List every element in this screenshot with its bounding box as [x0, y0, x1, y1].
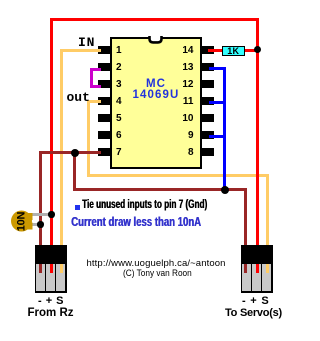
U1 pin 9: [202, 131, 214, 139]
connector J1 stub brown: [39, 264, 42, 273]
connector J2 cell -: [242, 264, 251, 291]
U1 pin number 4: [116, 96, 122, 107]
U1 pin number 5: [116, 113, 122, 124]
U1 label 14069U: [110, 89, 202, 101]
connector J1 cell S: [56, 264, 65, 291]
wire: orange OUT horizontal: [87, 174, 269, 177]
wire: brown ground left vertical (to From-Rz -): [39, 151, 42, 246]
wire: brown ground bottom horizontal: [73, 188, 248, 191]
capacitor C1 10N body: [11, 210, 33, 232]
U1 pin 14: [202, 46, 214, 54]
node: junction dot red rail / R1: [254, 46, 261, 53]
connector J2 cell +: [252, 264, 261, 291]
U1 notch: [144, 36, 168, 46]
U1 pin number 13: [182, 62, 194, 73]
wire: red supply top horizontal: [50, 18, 259, 21]
wire: red supply right vertical (to To-Servo +): [256, 18, 259, 246]
wire overlays: orange tip over pin 1: [98, 49, 101, 52]
credit url text: [87, 258, 226, 269]
wire overlay: blue tip over pin 9: [209, 135, 214, 138]
connector J1 From-Rz body: [35, 245, 67, 293]
U1 pin number 10: [182, 113, 194, 124]
credit author text: [123, 268, 192, 279]
U1 pin number 7: [116, 147, 122, 158]
wire overlay: orange tip over pin 4: [98, 100, 101, 103]
wire: purple feedback vertical: [90, 68, 94, 89]
wire: brown ground right vertical (to To-Servo -): [244, 188, 247, 247]
wire overlay: blue tip over pin 11: [209, 101, 214, 104]
wire: purple feedback pin3 stub: [90, 85, 101, 89]
wire overlay: brown tip over pin 7: [98, 151, 101, 154]
U1 pin 2: [98, 63, 110, 71]
note line 2 text: [71, 214, 201, 229]
connector J2 cell S: [262, 264, 271, 291]
note line 1: blue bullet: [75, 205, 80, 210]
node: junction dot ground pin7: [71, 149, 79, 157]
wire overlay: purple tip over pin 2: [98, 68, 101, 72]
wire: purple feedback pin2 stub: [90, 68, 101, 72]
connector J1 stub red: [50, 264, 53, 273]
node: junction dot cap to red rail: [48, 211, 54, 217]
U1 pin number 6: [116, 130, 122, 141]
wire: orange IN horizontal to pin 1: [60, 49, 101, 52]
capacitor C1 lead lower (to ground rail): [30, 223, 41, 226]
U1 pin number 8: [182, 147, 194, 158]
node: junction dot blue-to-ground: [221, 186, 229, 194]
connector J2 stub orange: [266, 264, 269, 273]
node: junction dot cap to ground rail: [37, 221, 43, 227]
U1 pin 7: [98, 148, 110, 156]
capacitor C1 value 10N (rotated): [16, 212, 27, 232]
wire: red supply left vertical (From-Rz +): [50, 18, 53, 246]
capacitor C1 lead upper (to red rail): [30, 213, 51, 216]
U1 pin number 3: [116, 79, 122, 90]
U1 label MC: [110, 78, 202, 90]
wire overlay: blue tip over pin 13: [209, 67, 214, 70]
connector J2 label To Servo(s): [223, 307, 285, 319]
op-amp U1 MC14069U body: [110, 37, 203, 169]
U1 pin 1: [98, 46, 110, 54]
U1 pin 10: [202, 114, 214, 122]
wire: brown ground horizontal from pin 7: [39, 151, 101, 154]
wire: brown ground mid vertical below junction: [73, 152, 76, 191]
wire: orange OUT stub at pin 4: [87, 100, 101, 103]
connector J1 cell +: [46, 264, 55, 291]
wire: orange OUT vertical to To-Servo S: [266, 174, 269, 246]
U1 pin 12: [202, 80, 214, 88]
resistor R1 value 1K: [222, 46, 245, 57]
wire: blue tie vertical to ground junction: [223, 67, 226, 191]
label IN: [78, 35, 95, 50]
connector J2 To-Servo body: [241, 245, 274, 293]
connector J2 label - + S: [240, 295, 273, 307]
note line 1 text: [82, 199, 207, 211]
U1 pin number 12: [182, 79, 194, 90]
U1 pin 6: [98, 131, 110, 139]
U1 pin number 9: [182, 130, 194, 141]
U1 pin 4: [98, 97, 110, 105]
U1 pin number 14: [182, 45, 194, 56]
resistor R1 1K body: [222, 46, 245, 57]
wire: blue tie stub pin 9: [209, 135, 226, 138]
U1 pin 13: [202, 63, 214, 71]
connector J1 stub orange: [60, 264, 63, 273]
wire: orange IN vertical (pin1 to From-Rz S): [60, 49, 63, 246]
U1 pin 11: [202, 97, 214, 105]
wire: orange OUT vertical: [87, 100, 90, 177]
connector J1 cell -: [36, 264, 45, 291]
U1 pin 8: [202, 148, 214, 156]
connector J1 label From Rz: [20, 307, 81, 319]
wire: red stub junction to resistor R1: [244, 49, 257, 52]
U1 pin 3: [98, 80, 110, 88]
connector J2 stub red: [256, 264, 259, 273]
U1 pin number 2: [116, 62, 122, 73]
wire: blue tie stub pin 13: [209, 67, 226, 70]
label out: [67, 90, 90, 105]
connector J2 stub brown: [244, 264, 247, 273]
connector J1 label - + S: [35, 295, 67, 307]
U1 pin number 1: [116, 45, 122, 56]
U1 pin 5: [98, 114, 110, 122]
wire overlay: purple tip over pin 3: [98, 85, 101, 89]
wire: blue tie stub pin 11: [209, 101, 226, 104]
U1 pin number 11: [182, 96, 194, 107]
wire overlay: red over pin 14: [208, 49, 222, 52]
